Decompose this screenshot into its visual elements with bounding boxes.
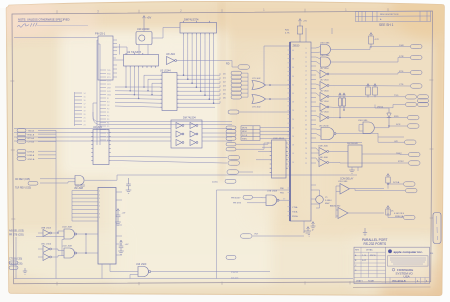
+5V cap C4 [311,222,316,230]
svg-text:Z8530: Z8530 [293,45,300,48]
svg-text:U7 LS02: U7 LS02 [252,78,261,80]
GPI wire [378,133,405,142]
svg-text:PIN 25-1: PIN 25-1 [95,32,106,36]
data callout wires to rail [242,73,249,97]
U17 labels [320,68,328,114]
title block left grid [354,247,430,277]
U15 input wires [247,197,266,203]
U18 wires [316,148,408,163]
buffer U18b [319,159,329,167]
U11 left pin ladder [72,191,98,222]
pull-up R2 [366,84,371,98]
U6 right pin numbers [305,48,307,165]
+5V symbol [143,16,146,31]
mid oval C wire [239,171,254,173]
svg-text:WREQA: WREQA [395,215,404,218]
svg-text:GPI: GPI [394,141,398,143]
svg-text:TLR REV (C05): TLR REV (C05) [15,188,31,190]
svg-text:U17 LS04: U17 LS04 [320,112,328,114]
svg-text:PR BUSY: PR BUSY [231,198,241,200]
right callout ovals [404,44,429,219]
svg-text:21: 21 [84,118,86,120]
bottom-left callout ovals [9,261,18,269]
+5V cap C2 [119,240,124,251]
drawing number [392,279,428,283]
svg-text:23: 23 [84,125,86,127]
bottom left oval [226,256,236,260]
svg-text:U14 LS161: U14 LS161 [273,138,285,140]
U11 bottom wires [102,264,110,279]
U6 lower-left pin labels [280,188,298,218]
top right long wire [316,28,362,143]
ladder pin labels [84,93,86,127]
OR gate U7a [252,81,266,90]
cap C1 [126,178,131,190]
svg-text:+5V: +5V [122,213,126,215]
svg-text:TXD A: TXD A [28,130,35,133]
inverter U17b [320,82,329,90]
svg-text:22: 22 [84,121,86,123]
svg-text:1: 1 [345,8,347,12]
oval to U6 bottom wire [253,235,305,237]
svg-text:NOTE: UNLESS OTHERWISE SPECIFI: NOTE: UNLESS OTHERWISE SPECIFIED [18,18,70,22]
pull-up R3 [373,84,378,98]
title block outer box [354,247,430,283]
svg-text:U17 LS04: U17 LS04 [320,80,328,82]
svg-text:DCD: DCD [107,91,112,93]
faint rule after mark [37,24,88,26]
pad group 2 [17,150,26,161]
svg-text:PR STB (C05): PR STB (C05) [9,235,24,237]
AND gate U16b [321,57,331,67]
svg-text:21: 21 [305,84,307,86]
svg-text:P1: P1 [107,112,109,114]
svg-text:36: 36 [305,129,307,131]
U15 output wire [279,199,290,201]
svg-text:26: 26 [292,110,294,112]
svg-text:32: 32 [292,84,294,86]
svg-text:RD: RD [226,63,230,66]
+5V pull-up R4 [386,174,390,185]
lower ovals [226,143,236,151]
gate input stubs [316,47,321,137]
bottom small texts [231,271,239,280]
revision table text [380,14,399,21]
svg-text:RTS: RTS [399,71,404,73]
inverter labels [41,228,52,246]
oval PR SEL [225,179,236,183]
crystal Y1 [316,196,324,204]
svg-text:U12 LS08: U12 LS08 [62,227,73,229]
AND gate U9a [75,176,84,186]
svg-text:U12 LS08: U12 LS08 [62,246,73,248]
svg-text:GND A: GND A [28,158,35,161]
svg-text:(C05): (C05) [212,182,218,184]
svg-text:TRXC: TRXC [396,153,402,155]
inverter U17d [320,103,329,111]
buffer U3a [167,57,177,65]
svg-text:PROD: PROD [370,255,376,257]
svg-text:30: 30 [305,143,307,145]
net name ovals [226,126,236,140]
pad group wires to rail [38,130,56,278]
single oval row [228,110,239,114]
IC U4 (small vertical DIP) [93,130,109,165]
+5V cap C3 [304,227,311,237]
svg-text:MOSI: MOSI [242,128,248,130]
svg-text:17: 17 [84,104,86,106]
svg-text:FS290: FS290 [231,271,239,274]
svg-text:12: 12 [305,62,307,64]
apple computer header [388,249,423,254]
svg-text:DRAFT: DRAFT [356,280,363,283]
svg-text:DM74LS374: DM74LS374 [184,18,199,22]
bottom-left gate wires [36,231,98,257]
U6 thick left edge [289,42,291,221]
svg-text:AM26LS32: AM26LS32 [330,205,341,208]
svg-text:U5 LS244: U5 LS244 [160,70,171,73]
svg-text:32: 32 [305,138,307,140]
svg-text:U17 LS04: U17 LS04 [320,91,328,93]
pullup pair R7 [343,93,346,110]
ground mark left [23,268,27,274]
junction dots bottom-left [57,232,86,254]
svg-text:26: 26 [305,153,307,155]
Y1 label [325,197,332,205]
IC U2 (mid DIP) [124,55,159,67]
svg-text:U13 LS00: U13 LS00 [136,264,147,266]
inverter U17a [320,70,329,78]
svg-text:18: 18 [292,145,294,147]
svg-text:30: 30 [292,93,294,95]
pullup pair R6 [339,93,342,118]
svg-text:RXD: RXD [394,116,399,118]
U4 pin bumps [91,133,111,161]
svg-text:24: 24 [292,119,294,121]
svg-text:DTR A: DTR A [28,150,35,153]
svg-text:U9C LS04: U9C LS04 [41,244,52,246]
svg-text:4.7K: 4.7K [375,39,380,41]
svg-text:U7 LS02: U7 LS02 [252,107,261,109]
svg-text:MISO: MISO [242,131,248,133]
long mid wire [117,174,357,176]
svg-text:USA: USA [404,274,410,278]
svg-text:U18 LS06: U18 LS06 [318,146,329,148]
J1 pins right [113,40,117,77]
svg-text:A/B SEL (C05): A/B SEL (C05) [9,230,24,233]
rev callout 1 oval [28,182,38,186]
svg-text:U10 LM320: U10 LM320 [137,28,150,31]
svg-text:U18 LS06: U18 LS06 [318,157,329,159]
inverter Ub [43,246,51,253]
svg-text:22: 22 [292,127,294,129]
border zone ticks right [429,80,433,218]
svg-text:PARALLEL PORT: PARALLEL PORT [362,238,388,242]
boundary bus wire [217,190,291,279]
svg-text:17: 17 [305,75,307,77]
IC U1 (top DIP) [180,23,217,34]
svg-text:14: 14 [292,162,294,164]
U5 pin bumps [160,75,179,107]
svg-text:DM DELAY: DM DELAY [347,142,359,145]
R20 labels [285,21,307,35]
svg-text:RXDA: RXDA [292,215,298,218]
svg-text:16: 16 [84,100,86,102]
vertical bus pair [97,40,100,145]
address lines [390,258,426,264]
svg-text:U3 LS04: U3 LS04 [166,54,176,56]
U13 wires [110,272,270,279]
U4 right wires [111,157,227,164]
junction dots diagonal [125,74,214,104]
svg-text:24: 24 [305,158,307,160]
gate output wires to right callouts [329,47,410,134]
inverter Ua [43,230,51,237]
inverter U17e [320,114,329,122]
ladder wires right of U5 [179,73,220,107]
U6 bottom wire to cap [303,221,305,231]
net table text [242,128,248,141]
wire from U6 top-left [264,46,290,85]
svg-text:GND: GND [107,95,112,97]
svg-text:19: 19 [84,111,86,113]
svg-text:31: 31 [305,107,307,109]
svg-text:U4 LS74: U4 LS74 [93,127,103,129]
svg-text:U17 LS04: U17 LS04 [320,101,328,103]
U6 left pin numbers [292,50,294,164]
svg-text:40: 40 [292,50,294,52]
net name table [241,126,260,141]
svg-text:REV: REV [355,250,360,252]
handwritten mark [18,23,38,27]
svg-text:RTS A: RTS A [28,137,35,140]
NAND U13 [138,267,151,277]
copyright symbol [392,268,395,271]
data callout rows [231,71,242,99]
diode D1 [387,108,391,126]
svg-text:SCK: SCK [396,124,401,126]
svg-text:DM 74LS04: DM 74LS04 [183,117,196,120]
single oval wire [239,111,290,113]
svg-text:16: 16 [292,153,294,155]
svg-text:29: 29 [305,102,307,104]
border zone ticks left [10,81,15,219]
svg-text:RA103: RA103 [231,277,239,280]
svg-text:P2: P2 [107,116,109,118]
pad group 2 labels [28,150,35,160]
U19a wires [336,184,405,218]
ground symbol near title [363,228,367,236]
svg-text:U19 LS86: U19 LS86 [338,181,348,183]
svg-text:28: 28 [305,148,307,150]
svg-text:U11 6522: U11 6522 [75,186,86,188]
svg-text:DSR A: DSR A [28,154,35,157]
svg-text:SSEL: SSEL [242,138,248,140]
NAND gate U12a [64,229,77,239]
title block left grid text [355,249,376,283]
svg-text:ROME: ROME [368,281,375,283]
svg-text:U16 LS86: U16 LS86 [320,43,330,45]
svg-text:U16 LS240: U16 LS240 [319,126,328,128]
ladder wires left of U5 [115,68,160,107]
bus pair stub labels [107,70,112,142]
svg-text:U7B LS08: U7B LS08 [267,191,278,193]
title block main divider [385,247,387,283]
NAND gate U12b [64,248,77,258]
bottom-left callout text 1 [9,230,24,237]
bus corner from rail [93,103,232,125]
NOTE text top left [18,18,70,22]
svg-text:2: 2 [180,9,182,13]
svg-text:apple computer inc.: apple computer inc. [394,250,423,254]
bottom oval callout [241,234,253,238]
svg-text:37: 37 [305,120,307,122]
ground below DL1 [349,170,355,173]
bus pair pin stubs [100,70,106,140]
svg-text:TXD: TXD [394,95,399,97]
svg-text:3.6864: 3.6864 [325,200,332,202]
U15 input labels [231,198,241,205]
U1 left wire [163,27,180,29]
svg-text:DETAIL: DETAIL [366,249,374,252]
buffer U18a [319,148,329,156]
svg-text:CD REV (C05): CD REV (C05) [15,179,30,181]
rev callout 2 [15,188,31,190]
U9a output wire [85,175,117,180]
left connector ladder [75,92,83,126]
svg-text:34: 34 [292,76,294,78]
svg-text:U16 LS86: U16 LS86 [320,55,330,57]
svg-text:+5V: +5V [147,16,152,20]
svg-text:PG: PG [430,253,433,255]
svg-text:CTS A: CTS A [28,141,35,144]
left rail bottom [15,237,17,279]
svg-text:14: 14 [84,93,86,95]
R4 junction [387,183,389,185]
data bus verticals from U1 [184,35,214,103]
svg-text:PR STB: PR STB [233,202,241,204]
ground below C1 [126,190,132,193]
U14 pin bumps [270,143,288,172]
AND gate U16a [321,45,331,55]
svg-text:P5: P5 [107,126,109,128]
title bottom row dividers [390,278,425,284]
U20 wires [359,125,407,132]
IC U5 (vertical DIP) [162,73,177,111]
oscillator U10 [136,32,152,45]
U6 left pin stubs [288,50,291,166]
pad group 1 labels [28,130,35,144]
svg-text:28: 28 [292,102,294,104]
U15 input oval [243,195,253,199]
address box [388,256,429,266]
svg-text:P3: P3 [107,119,109,121]
svg-text:33: 33 [305,111,307,113]
svg-text:27: 27 [305,98,307,100]
J1 left wires to bus pair [14,38,100,45]
svg-text:RXD A: RXD A [28,133,35,136]
inverter Uc [43,254,51,261]
svg-text:DSR: DSR [399,45,404,47]
mid oval B [228,161,240,165]
+5V pull-up R5 [386,206,390,216]
revision table top right [356,11,431,22]
svg-text:4.7K: 4.7K [285,33,290,35]
border zone ticks bottom [57,281,350,285]
drawing title text [362,238,388,246]
svg-text:REV DESCRIPTION: REV DESCRIPTION [380,14,399,16]
DL1 pins [352,154,408,171]
svg-text:4.9M 74LS: 4.9M 74LS [394,213,405,215]
svg-text:20: 20 [84,114,86,116]
svg-text:36: 36 [292,67,294,69]
svg-text:+5V: +5V [303,21,307,23]
NOTE underline [18,20,62,22]
svg-text:19: 19 [305,80,307,82]
U6 second top wire [305,28,307,42]
svg-text:20: 20 [292,136,294,138]
C2 ground [118,251,124,254]
data callout labels [223,74,226,100]
svg-text:3: 3 [97,9,99,13]
IC U11 (big vertical) [98,188,116,265]
svg-text:+5V: +5V [125,244,129,246]
AND gate U15 [266,195,279,205]
mid oval C [227,170,239,174]
svg-text:22: 22 [305,163,307,165]
U6 right pin stubs [311,48,316,204]
svg-text:RS-232 PORTS: RS-232 PORTS [364,242,387,246]
bottom-left callout text 2 [9,259,23,266]
svg-text:P4: P4 [107,123,109,125]
svg-text:CTSA: CTSA [292,206,298,209]
pull-up R1 [369,33,374,49]
lower oval wires [236,142,268,149]
net table wires to U6 [260,128,290,139]
svg-text:10: 10 [305,53,307,55]
opamp U19a [340,184,350,195]
U11 ladder pin numbers [99,191,101,220]
svg-text:U9 LS08: U9 LS08 [74,188,84,190]
IC U6 (large vertical) [290,42,311,221]
U2 left wire [114,59,124,61]
hex inverter pack U8 [171,120,202,148]
svg-text:CTS B (C05): CTS B (C05) [9,259,22,261]
mid oval A [228,155,240,159]
opamp U19b [338,208,348,219]
U3a output wire to CTS ovals [177,61,238,68]
svg-text:23: 23 [305,89,307,91]
svg-text:RTXC: RTXC [398,161,404,163]
rev callout wires to AND U9a [40,179,75,183]
U14 left wires [256,143,270,160]
+5V resistor R20 [297,19,302,43]
faint line under title block [353,286,431,288]
svg-text:1: 1 [263,8,265,12]
CTS callout ovals [238,65,250,69]
svg-text:25: 25 [305,93,307,95]
svg-text:CTS: CTS [399,84,404,86]
pad group 1 [17,129,26,144]
svg-text:SCLK: SCLK [242,135,248,137]
diode label wire [375,105,389,109]
D1 junction [388,125,390,127]
U11 right stubs [116,192,122,255]
rev callout 1 [15,179,30,181]
long bottom wire 1 [14,278,353,280]
wide gate U21 [321,128,336,140]
svg-text:DTR: DTR [399,56,404,58]
